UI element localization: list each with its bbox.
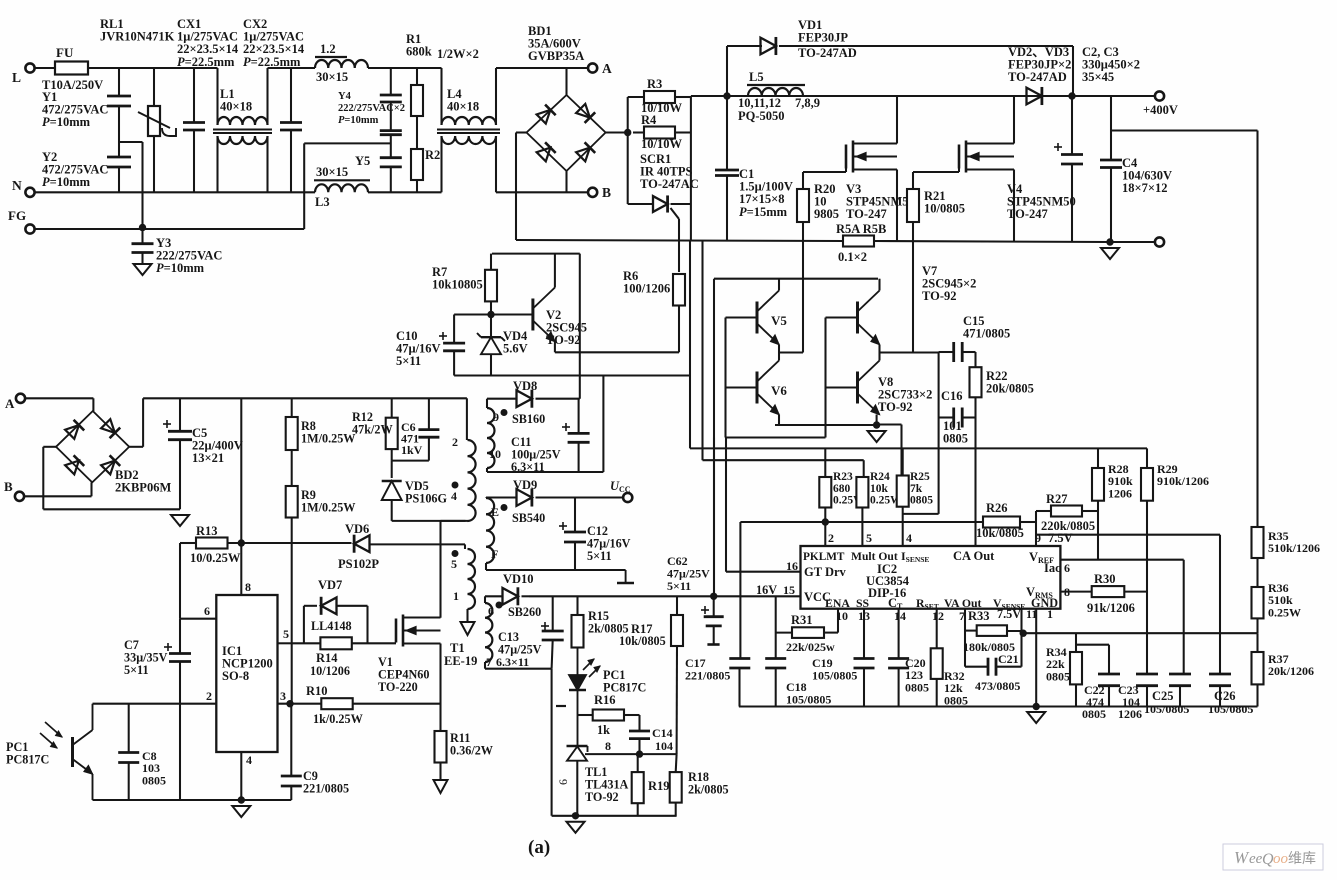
IC U2 UC3854 box xyxy=(801,546,1061,609)
label R29 xyxy=(1157,462,1209,488)
svg-text:Iac: Iac xyxy=(1044,561,1061,575)
label C25 val xyxy=(1144,702,1189,716)
label pin9 xyxy=(1035,531,1041,545)
wire Y3 stub xyxy=(141,228,143,265)
wire V5 collector xyxy=(778,279,780,291)
wire Isense line xyxy=(690,447,1147,449)
label CT xyxy=(888,596,903,611)
svg-text:C26: C26 xyxy=(1214,689,1236,703)
wire FG tap xyxy=(304,143,391,229)
wire VD5 bottom xyxy=(392,500,466,521)
label T1 pin1 xyxy=(453,589,459,603)
svg-text:8: 8 xyxy=(245,580,251,594)
svg-text:PS102P: PS102P xyxy=(338,557,379,571)
svg-text:20k/0805: 20k/0805 xyxy=(986,382,1034,396)
label R27 xyxy=(1046,492,1068,506)
wire C15 left xyxy=(939,351,954,353)
label R23 xyxy=(833,471,865,507)
wire R1-R2 xyxy=(416,116,418,149)
label +400V xyxy=(1143,103,1178,117)
svg-text:91k/1206: 91k/1206 xyxy=(1087,601,1135,615)
resistor R3 xyxy=(644,91,675,103)
label V8 xyxy=(878,375,932,414)
wire driver box left xyxy=(713,279,715,597)
svg-text:680: 680 xyxy=(833,483,851,495)
label VD8 xyxy=(513,379,537,393)
svg-text:10k: 10k xyxy=(870,483,889,495)
wire R30 right xyxy=(1124,591,1147,593)
wire CA Out column xyxy=(974,397,976,546)
label C20 xyxy=(905,656,929,694)
label V7 xyxy=(922,264,976,303)
resistor R20 xyxy=(797,189,809,222)
label C1 xyxy=(739,167,793,219)
capacitor C15 xyxy=(954,342,963,362)
wire C6 top xyxy=(428,398,430,429)
wire R2 stub xyxy=(416,180,418,192)
label 220k/0805 xyxy=(1041,519,1095,533)
wire C22 bottom xyxy=(1108,686,1110,707)
watermark box xyxy=(1223,844,1323,870)
capacitor C62 xyxy=(701,606,724,626)
wire Vrms pin8 xyxy=(1060,591,1091,593)
wire sense drop 2 xyxy=(701,241,703,460)
junction gnd bus xyxy=(1033,703,1040,710)
wire VD5 column xyxy=(391,461,393,478)
svg-text:Y5: Y5 xyxy=(355,154,370,168)
label pin5 xyxy=(866,531,872,545)
label R26 xyxy=(986,501,1008,515)
capacitor Y4a xyxy=(380,95,402,102)
wire BD1 left corner down xyxy=(516,133,527,241)
resistor R24 xyxy=(856,477,868,508)
svg-text:R23: R23 xyxy=(833,471,853,483)
label R11 xyxy=(450,731,493,758)
label VCC xyxy=(804,590,831,604)
label 30x15 L3 xyxy=(316,165,348,179)
label 0.1x2 xyxy=(838,250,867,264)
label C7 xyxy=(124,638,168,677)
label pin13 xyxy=(858,609,870,623)
svg-text:20k/1206: 20k/1206 xyxy=(1268,664,1314,678)
label BD1 xyxy=(528,24,584,63)
wire V2 bottom line xyxy=(454,374,690,376)
resistor R30 xyxy=(1092,586,1125,597)
svg-text:1: 1 xyxy=(453,589,459,603)
capacitor C23 xyxy=(1136,674,1158,686)
wire V2 emitter xyxy=(554,342,556,353)
svg-text:10/1206: 10/1206 xyxy=(310,664,350,678)
svg-text:L: L xyxy=(12,70,21,85)
svg-text:30×15: 30×15 xyxy=(316,70,348,84)
svg-text:R25: R25 xyxy=(910,471,930,483)
svg-text:0.36/2W: 0.36/2W xyxy=(450,744,493,758)
wire C25 bottom xyxy=(1179,686,1181,707)
svg-text:VD7: VD7 xyxy=(318,578,342,592)
label pin7 xyxy=(959,609,965,623)
svg-text:R4: R4 xyxy=(641,113,657,127)
svg-text:FEP30JP: FEP30JP xyxy=(798,31,848,45)
label R8 xyxy=(301,419,356,446)
svg-text:TO-247: TO-247 xyxy=(1007,207,1048,221)
transformer T1 primary xyxy=(468,440,476,521)
resistor R19 xyxy=(632,772,644,803)
svg-text:105/0805: 105/0805 xyxy=(812,668,857,682)
svg-text:10k10805: 10k10805 xyxy=(432,278,483,292)
svg-text:TO-92: TO-92 xyxy=(922,289,957,303)
ground IC2 xyxy=(1027,712,1045,723)
resistor R18 xyxy=(670,772,682,803)
label R19 xyxy=(648,779,670,793)
svg-text:105/0805: 105/0805 xyxy=(786,692,831,706)
label R28 xyxy=(1108,462,1133,500)
svg-text:40×18: 40×18 xyxy=(220,100,252,114)
label C23 104 xyxy=(1122,695,1140,709)
label C22 name xyxy=(1084,683,1105,697)
wire to BD1 top xyxy=(496,67,593,69)
wire sense drop 1 xyxy=(689,241,691,448)
wire pin13 column xyxy=(863,609,865,707)
junction VCC/pin8 col xyxy=(238,539,245,546)
svg-text:R14: R14 xyxy=(316,651,338,665)
wire C16 right stub xyxy=(962,416,975,418)
label R3 xyxy=(647,77,662,91)
capacitor C9 xyxy=(281,776,302,786)
svg-text:0805: 0805 xyxy=(943,432,968,446)
svg-text:VD9: VD9 xyxy=(513,478,537,492)
wire R24 bottom pin5 xyxy=(861,508,863,547)
wire R15 top xyxy=(576,596,578,615)
wire C17 column xyxy=(738,522,741,707)
svg-text:VA Out: VA Out xyxy=(944,596,982,610)
svg-text:10/0805: 10/0805 xyxy=(924,202,965,216)
wire GND bus xyxy=(739,705,1258,707)
label C23 name xyxy=(1118,683,1139,697)
label R10 xyxy=(306,684,328,698)
svg-text:7,8,9: 7,8,9 xyxy=(795,96,820,110)
svg-text:B: B xyxy=(4,479,13,494)
svg-text:JVR10N471K: JVR10N471K xyxy=(100,30,175,44)
svg-text:910k/1206: 910k/1206 xyxy=(1157,474,1209,488)
wire V4 drain xyxy=(1013,96,1015,144)
wire R3R4 left vertical xyxy=(627,97,629,204)
transformer winding 6-7 xyxy=(485,603,492,662)
wire R21 top xyxy=(912,172,914,189)
ground main return xyxy=(1101,248,1119,259)
svg-text:471/0805: 471/0805 xyxy=(963,327,1010,341)
svg-text:30×15: 30×15 xyxy=(316,165,348,179)
label SS xyxy=(856,596,870,610)
ground arrow R11 xyxy=(434,780,448,793)
wire VD10 line xyxy=(485,596,529,603)
wire C13 column xyxy=(552,596,553,668)
wire L to fuse xyxy=(35,67,55,69)
label pin8 xyxy=(1064,585,1070,599)
svg-text:6: 6 xyxy=(556,779,570,785)
wire L bus xyxy=(88,67,218,69)
wire primary top xyxy=(466,398,468,440)
wire V1 source xyxy=(439,644,441,732)
wire C14 bottom xyxy=(638,739,640,755)
resistor R10 xyxy=(321,698,352,709)
label GT Drv xyxy=(804,565,847,579)
svg-text:1M/0.25W: 1M/0.25W xyxy=(301,501,356,515)
svg-text:2: 2 xyxy=(828,531,834,545)
bridge rectifier BD2 xyxy=(56,411,129,482)
wire C2C3 column xyxy=(1071,96,1073,242)
wire pin16 line xyxy=(726,438,801,572)
wire V8 gnd to R25 xyxy=(900,425,902,476)
resistor R21 xyxy=(907,189,919,222)
wire R19 top xyxy=(637,754,639,772)
svg-text:SO-8: SO-8 xyxy=(222,669,249,683)
wire R35-R36 xyxy=(1256,558,1258,587)
diode VD1 xyxy=(761,37,776,55)
capacitor CX2 xyxy=(280,123,302,131)
wire return to terminal xyxy=(1110,241,1155,243)
label C14 xyxy=(652,726,673,740)
label R5A R5B xyxy=(836,222,886,236)
label R25 xyxy=(910,471,933,507)
label C8 xyxy=(142,749,166,787)
wire R31 to pin10 xyxy=(824,609,838,633)
label C15 xyxy=(963,314,1010,341)
svg-text:1/2W×2: 1/2W×2 xyxy=(437,47,479,61)
wire C10 column xyxy=(453,315,455,376)
terminal L xyxy=(25,63,34,72)
svg-text:7.5V: 7.5V xyxy=(1048,531,1073,545)
wire Vsense bus xyxy=(965,631,1258,634)
wire R12 top xyxy=(391,398,393,417)
wire C12 column xyxy=(574,498,576,571)
wire C4 branch xyxy=(1110,96,1112,242)
wire R1 stub xyxy=(416,68,418,85)
junction return/ground xyxy=(1106,238,1113,245)
wire V6 emitter xyxy=(778,415,780,426)
label pin16 xyxy=(786,559,798,573)
wire R3 right xyxy=(675,96,691,98)
svg-text:R19: R19 xyxy=(648,779,670,793)
inductor L1 top winding xyxy=(218,117,268,125)
label C9 xyxy=(303,769,349,796)
label E xyxy=(491,505,499,519)
transformer T1 aux winding xyxy=(468,549,476,609)
wire BD1 top corner xyxy=(565,68,567,95)
terminal +400V xyxy=(1155,91,1164,100)
svg-text:12: 12 xyxy=(932,609,944,623)
wire R18 bottom xyxy=(675,803,677,816)
wire R18 top xyxy=(675,754,678,772)
wire Y1-Y2 tap to FG riser xyxy=(119,142,143,228)
svg-text:V5: V5 xyxy=(771,313,787,328)
optocoupler PC1 transistor xyxy=(40,704,93,800)
capacitor C19 xyxy=(854,659,875,669)
capacitor C21 xyxy=(988,658,996,676)
wire L bus 3 xyxy=(368,67,442,69)
resistor R15 xyxy=(572,615,584,648)
label C21 xyxy=(998,652,1019,666)
transformer winding E-F xyxy=(486,498,494,563)
junction 16V/C62 xyxy=(710,593,717,600)
wire emitter gnd line xyxy=(775,423,902,426)
svg-text:0805: 0805 xyxy=(1046,669,1070,683)
label DIP-16 xyxy=(868,586,906,600)
label SB540 xyxy=(512,511,545,525)
wire R17 bottom xyxy=(676,646,678,754)
label pin12 xyxy=(932,609,944,623)
label R13 xyxy=(196,524,218,538)
svg-text:0805: 0805 xyxy=(944,693,968,707)
label R32 xyxy=(944,669,968,707)
svg-text:SB540: SB540 xyxy=(512,511,545,525)
bridge rectifier BD1 xyxy=(527,95,606,171)
svg-text:35×45: 35×45 xyxy=(1082,70,1114,84)
capacitor C8 xyxy=(118,753,139,763)
ground bar C12 xyxy=(617,570,634,583)
wire C15 right xyxy=(962,352,975,367)
label L4 xyxy=(447,87,479,114)
wire Iac line xyxy=(1060,560,1183,674)
wire L4 left risers xyxy=(440,68,442,192)
MOSFET V1 xyxy=(396,615,441,647)
wire R9 bottom xyxy=(291,518,293,704)
wire drain column xyxy=(441,521,468,618)
svg-text:SS: SS xyxy=(856,596,870,610)
label IC1 xyxy=(222,644,273,683)
svg-text:8: 8 xyxy=(605,739,611,753)
label 7.5V pin11 xyxy=(997,607,1021,621)
svg-text:R31: R31 xyxy=(791,613,813,627)
wire R28 bottom xyxy=(1097,501,1099,560)
label Rset xyxy=(916,596,939,611)
svg-text:14: 14 xyxy=(894,609,906,623)
wire R16 line xyxy=(578,714,593,716)
svg-text:6: 6 xyxy=(488,604,494,618)
label C16 xyxy=(941,389,963,403)
capacitor Y4b xyxy=(380,131,402,135)
capacitor C62 end bar xyxy=(707,643,719,646)
svg-text:A: A xyxy=(5,396,15,411)
wire R34 bottom xyxy=(1075,684,1077,706)
svg-text:R30: R30 xyxy=(1094,572,1116,586)
capacitor C13 xyxy=(541,622,564,640)
svg-text:0.25W: 0.25W xyxy=(1268,605,1301,619)
capacitor Y2 xyxy=(107,157,131,167)
label pin2 IC1 xyxy=(206,689,212,703)
capacitor CX1 xyxy=(183,123,205,131)
label CX1 xyxy=(177,17,239,69)
label R37 xyxy=(1268,652,1314,678)
resistor R8 xyxy=(286,417,298,450)
label R7 xyxy=(432,265,483,292)
svg-text:4: 4 xyxy=(451,489,457,503)
wire FG bus xyxy=(35,228,305,230)
label V2 xyxy=(546,308,587,347)
svg-text:5×11: 5×11 xyxy=(124,663,149,677)
svg-text:9805: 9805 xyxy=(814,207,839,221)
wire V8 emitter xyxy=(876,415,878,425)
junction R7/VD4/base xyxy=(487,311,494,318)
label C62 xyxy=(667,554,710,593)
pin6 dot xyxy=(496,602,503,609)
label pin4 IC1 xyxy=(246,753,252,767)
wire C23 bottom xyxy=(1146,686,1148,707)
wire pin5 line xyxy=(278,642,397,644)
wire Y4 column xyxy=(390,68,392,192)
label SCR1 xyxy=(640,152,699,191)
svg-text:2k/0805: 2k/0805 xyxy=(688,783,729,797)
label C25 name xyxy=(1152,689,1174,703)
resistor R33 xyxy=(977,625,1007,636)
MOSFET V3 xyxy=(846,141,897,173)
wire w67 bottom xyxy=(485,662,552,669)
wire R23 top xyxy=(824,448,826,477)
label C13 xyxy=(498,630,542,657)
label C18 xyxy=(786,680,831,706)
wire L bus 2 xyxy=(268,67,316,69)
wire 16V drop xyxy=(602,376,604,473)
label C16 value xyxy=(943,419,968,446)
svg-text:0805: 0805 xyxy=(142,773,166,787)
svg-text:9: 9 xyxy=(493,410,499,424)
label Mult Out xyxy=(851,550,898,563)
label R33 xyxy=(968,609,990,623)
wire V8 collector xyxy=(878,353,880,361)
svg-text:1k/0.25W: 1k/0.25W xyxy=(313,712,363,726)
svg-text:4: 4 xyxy=(246,753,252,767)
wire VD7 loop xyxy=(304,606,368,644)
wire pin7 column xyxy=(965,609,988,667)
wire pin12 column xyxy=(936,609,938,707)
wire R4 left xyxy=(633,131,644,133)
label pin2 xyxy=(828,531,834,545)
svg-text:P=22.5mm: P=22.5mm xyxy=(177,55,235,69)
wire R25 top xyxy=(902,448,904,475)
diode VD9 xyxy=(517,488,532,506)
terminal FG xyxy=(25,224,34,233)
wire L4 right risers xyxy=(495,68,497,192)
wire V7V8 base tie xyxy=(824,318,826,438)
wire V8 base xyxy=(826,386,858,388)
label C4 xyxy=(1122,156,1172,195)
label R17 xyxy=(631,622,653,636)
resistor R4 xyxy=(644,127,675,139)
wire V3 drain xyxy=(896,96,898,144)
label 180k/0805 xyxy=(963,640,1015,654)
inductor L4 bottom winding xyxy=(442,136,497,144)
wire BD1 bottom corner xyxy=(565,171,567,192)
label VD4 xyxy=(503,329,528,356)
inductor L3 xyxy=(315,184,368,192)
diode VD7 xyxy=(321,597,336,615)
label V1 xyxy=(378,655,429,694)
T1 pin5 dot xyxy=(452,550,459,557)
label R14 xyxy=(316,651,338,665)
label V3 xyxy=(846,182,915,221)
svg-text:1206: 1206 xyxy=(1118,707,1142,721)
label Y3 xyxy=(156,236,222,275)
capacitor C26 xyxy=(1209,674,1231,686)
wire R19 bottom xyxy=(637,803,639,816)
wire V4 gate xyxy=(913,169,959,173)
label L1 xyxy=(220,87,252,114)
wire R8 top xyxy=(291,398,293,417)
wire to BD1 bottom xyxy=(496,191,593,193)
wire VD4 column xyxy=(490,315,492,376)
label pin4 xyxy=(906,531,912,545)
svg-text:5: 5 xyxy=(451,557,457,571)
wire R10 right xyxy=(353,703,441,705)
